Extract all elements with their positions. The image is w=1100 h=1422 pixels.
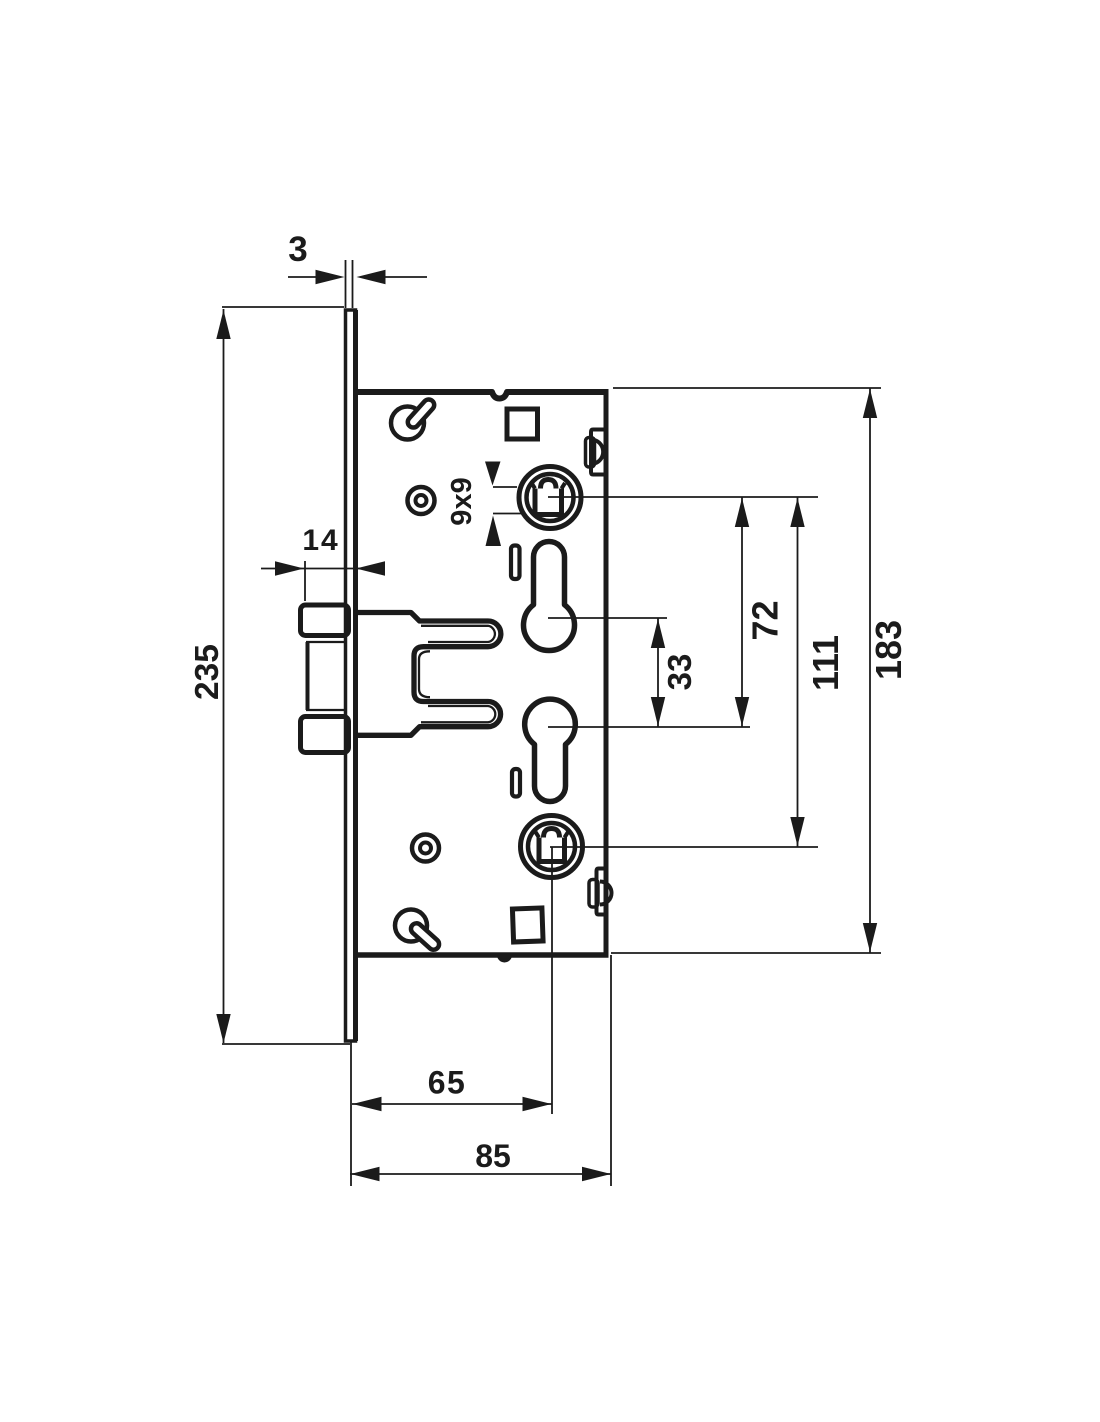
svg-text:65: 65: [428, 1065, 467, 1101]
svg-text:85: 85: [475, 1138, 511, 1174]
svg-text:111: 111: [805, 635, 846, 691]
svg-text:14: 14: [302, 524, 339, 557]
svg-text:72: 72: [745, 600, 786, 640]
svg-text:3: 3: [288, 230, 307, 269]
svg-text:33: 33: [661, 654, 698, 691]
svg-text:9x9: 9x9: [446, 477, 478, 525]
svg-text:183: 183: [868, 620, 909, 680]
svg-text:235: 235: [189, 644, 226, 700]
